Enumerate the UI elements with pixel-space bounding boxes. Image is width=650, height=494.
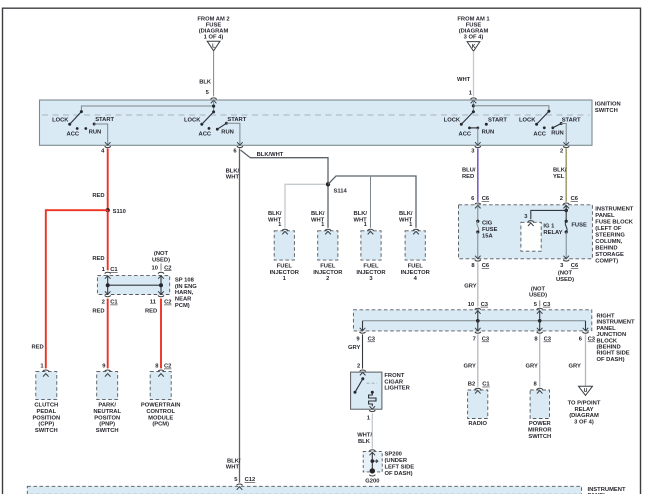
wire GRY junction pin 8 to power mirror switch [526,334,540,386]
ignition switch pole 2 [184,112,247,138]
svg-text:(IN ENG: (IN ENG [175,284,197,290]
svg-text:RIGHT SIDE: RIGHT SIDE [597,351,630,357]
svg-text:C3: C3 [544,337,552,343]
svg-text:BLK/: BLK/ [311,211,325,217]
svg-text:K: K [472,44,476,50]
svg-text:START: START [227,117,246,123]
svg-text:C3: C3 [482,337,490,343]
svg-text:OF DASH): OF DASH) [597,357,625,363]
junction block pin 5 C3 stub (not used) [529,286,551,313]
svg-text:GRY: GRY [464,364,476,370]
svg-text:STORAGE: STORAGE [595,252,624,258]
svg-text:RELAY: RELAY [574,407,593,413]
svg-text:L: L [212,43,215,49]
wire to fuel injectors 3 and 4 [328,176,416,228]
power mirror switch [528,390,552,440]
svg-text:RIGHT: RIGHT [597,314,615,320]
svg-text:C1: C1 [482,382,490,388]
svg-text:(NOT: (NOT [558,270,573,276]
svg-text:USED): USED) [152,257,170,263]
svg-text:2: 2 [102,300,105,306]
svg-text:C3: C3 [481,302,489,308]
svg-text:IG 1: IG 1 [543,224,555,230]
svg-text:(BEHIND: (BEHIND [597,345,621,351]
wire WHT from triangle K to ignition switch pin 1 [457,51,477,103]
svg-text:7: 7 [473,337,476,343]
svg-text:3 OF 4): 3 OF 4) [464,35,484,41]
svg-text:U: U [584,388,588,394]
svg-text:C2: C2 [164,364,171,370]
svg-text:USED): USED) [529,292,547,298]
svg-text:RADIO: RADIO [468,421,487,427]
svg-text:3 OF 4): 3 OF 4) [574,420,594,426]
svg-text:MIRROR: MIRROR [528,427,552,433]
svg-text:PEDAL: PEDAL [36,409,56,415]
fuel injector 1 [268,211,300,282]
svg-text:OF DASH): OF DASH) [385,471,413,477]
svg-text:BLK/: BLK/ [399,211,413,217]
svg-text:C3: C3 [588,337,596,343]
svg-text:START: START [488,117,507,123]
svg-text:B2: B2 [468,382,475,388]
svg-text:RED: RED [462,174,474,180]
SP108 pin 2 C1 connector [102,295,119,305]
cig fuse 15A [476,205,497,258]
svg-text:(UNDER: (UNDER [385,458,408,464]
ignition switch box [40,100,621,145]
svg-text:C3: C3 [543,302,551,308]
svg-text:C2: C2 [164,265,171,271]
connector triangle K (FROM AM 1 FUSE) [457,17,490,52]
svg-text:RED: RED [145,309,157,315]
wire RED branch S110 to CPP switch [32,210,108,368]
fuse block pin 2 C6 connector [560,196,579,208]
radio pin B2 C1 connector [468,382,491,394]
svg-text:IGNITION: IGNITION [595,102,621,108]
junction block pin 9 C3 connector [356,328,375,343]
svg-text:RUN: RUN [221,130,234,136]
junction block internal bus [363,311,586,331]
svg-text:C6: C6 [482,196,490,202]
svg-text:(PNP): (PNP) [99,422,115,428]
svg-text:LOCK: LOCK [519,117,536,123]
svg-text:FUSE: FUSE [482,227,498,233]
svg-text:LOCK: LOCK [444,117,461,123]
wire BLK/YEL pin 2 to fuse block [553,148,567,201]
svg-text:LOCK: LOCK [184,117,201,123]
splice S114 [326,182,348,194]
svg-text:(DIAGRAM: (DIAGRAM [459,28,489,34]
SP108 pin 1 C1 connector [102,267,119,279]
wire to fuel injector 2 [327,187,329,228]
svg-text:SWITCH: SWITCH [528,434,551,440]
svg-text:PARK/: PARK/ [98,403,116,409]
svg-text:RELAY: RELAY [543,230,562,236]
svg-text:TO P/POINT: TO P/POINT [568,400,601,406]
connector triangle to P/point relay [568,386,601,425]
svg-text:ACC: ACC [459,132,472,138]
svg-text:1 OF 4): 1 OF 4) [204,35,224,41]
svg-text:C6: C6 [571,263,579,269]
svg-text:10: 10 [468,302,474,308]
svg-text:INJECTOR: INJECTOR [401,270,431,276]
svg-text:(DIAGRAM: (DIAGRAM [199,28,229,34]
fuel injector 3 [354,211,387,282]
svg-text:ACC: ACC [67,132,80,138]
power mirror switch pin 8 connector [533,382,542,394]
wire GRY junction pin 6 to P/point relay [569,334,586,386]
svg-text:2: 2 [560,196,563,202]
junction block pin 7 C3 connector [473,328,490,343]
svg-text:(DIAGRAM: (DIAGRAM [569,413,599,419]
instrument panel box (bottom, cut off) [27,486,626,494]
svg-text:POSITON: POSITON [94,415,120,421]
wire switch3 RUN to pin 3 [477,128,479,145]
svg-text:C1: C1 [110,267,118,273]
connector triangle L (FROM AM 2 FUSE) [197,17,229,51]
svg-text:POSITION: POSITION [32,415,60,421]
instrument panel fuse block [459,205,634,265]
svg-text:ACC: ACC [199,132,212,138]
svg-text:COLUMN,: COLUMN, [595,239,622,245]
IG 1 relay [521,222,563,251]
SP108 pin 10 C2 stub (not used) [152,251,172,279]
svg-text:INSTRUMENT: INSTRUMENT [595,207,633,213]
svg-text:C1: C1 [110,300,118,306]
svg-text:CLUTCH: CLUTCH [34,403,58,409]
cigar lighter pin 1 connector [367,410,376,421]
svg-text:INSTRUMENT: INSTRUMENT [588,487,626,493]
svg-text:JUNCTION: JUNCTION [597,332,627,338]
front cigar lighter [351,370,411,409]
switch 1 feed wire [81,106,213,112]
radio [468,390,488,427]
svg-text:SWITCH: SWITCH [595,108,618,114]
svg-text:INJECTOR: INJECTOR [270,270,300,276]
svg-text:LEFT SIDE: LEFT SIDE [385,465,415,471]
wire BLK/WHT pin 6 down to C12 [226,148,241,482]
svg-text:WHT: WHT [226,464,240,470]
wire RED SP108 pin2 to PNP switch [92,299,107,369]
wire RED S110 to SP108 pin 1 [92,210,107,270]
svg-text:BEHIND: BEHIND [595,246,617,252]
svg-text:15A: 15A [482,233,493,239]
fuse block pin 3 C6 connector (not used) [556,256,579,283]
svg-text:BLOCK: BLOCK [597,338,618,344]
SP108 pin 11 C2 connector [150,295,172,305]
svg-text:11: 11 [150,300,157,306]
svg-text:2: 2 [560,149,563,155]
svg-text:SWITCH: SWITCH [96,428,119,434]
svg-text:FUEL: FUEL [363,263,379,269]
svg-text:RED: RED [92,193,104,199]
svg-text:SP200: SP200 [385,452,402,458]
svg-text:BLK/: BLK/ [553,168,567,174]
svg-text:(PCM): (PCM) [152,422,169,428]
svg-text:GRY: GRY [569,364,581,370]
svg-text:S114: S114 [334,188,348,194]
svg-text:POWERTRAIN: POWERTRAIN [141,403,181,409]
fuel injector 2 [311,211,343,282]
pin 6 connector [233,142,243,154]
fuse (right) [565,210,587,258]
svg-text:FUSE: FUSE [571,222,587,228]
ignition switch pole 4 [519,110,581,138]
svg-text:COMPT): COMPT) [595,259,618,265]
svg-text:FRONT: FRONT [384,373,404,379]
junction block pin 6 C3 connector [579,328,596,343]
svg-text:C3: C3 [368,337,376,343]
ground G200 [365,468,379,484]
svg-text:C6: C6 [482,263,490,269]
pin 4 connector [101,142,111,154]
fuse block pin 6 C6 connector [471,196,490,208]
svg-text:(CPP): (CPP) [38,422,54,428]
junction block pin 8 C3 connector [534,328,551,343]
park/neutral position (PNP) switch [93,372,121,435]
splice S110 [106,208,126,215]
wire GRY junction pin 7 to radio [464,334,478,386]
svg-text:RED: RED [92,256,104,262]
svg-text:BLU/: BLU/ [462,168,476,174]
svg-text:10: 10 [152,265,158,271]
SP108 internal bus [105,276,164,295]
svg-text:FUEL: FUEL [320,263,336,269]
svg-text:GRY: GRY [348,345,360,351]
svg-text:PANEL: PANEL [597,326,617,332]
fuel injector 4 [399,211,431,282]
svg-text:START: START [562,117,581,123]
clutch pedal position (CPP) switch [32,372,60,435]
wire to fuel injector 1 [285,184,326,228]
svg-text:(NOT: (NOT [154,251,169,257]
switch 2 pivot from pin 5 [212,100,215,113]
svg-text:INJECTOR: INJECTOR [356,270,386,276]
svg-text:RUN: RUN [482,130,495,136]
IG 1 relay feed wire [524,205,568,226]
svg-text:PANEL: PANEL [595,213,615,219]
svg-text:ACC: ACC [533,132,546,138]
svg-text:C12: C12 [245,477,256,483]
svg-text:BLK: BLK [358,439,371,445]
svg-text:CONTROL: CONTROL [146,409,175,415]
svg-text:FUEL: FUEL [408,263,424,269]
svg-text:YEL: YEL [553,174,565,180]
pin 2 connector [560,142,569,154]
ignition switch pole 1 [52,110,114,137]
powertrain control module (PCM) [141,372,181,428]
svg-text:SWITCH: SWITCH [35,428,58,434]
wire RED from pin 4 to S110 [92,148,107,210]
PNP switch pin 9 connector [102,364,110,377]
pin 5 C12 connector at instrument panel [234,477,255,490]
svg-text:START: START [95,117,114,123]
svg-text:GRY: GRY [464,284,476,290]
wire drop to fuel injector 3 [370,176,372,228]
svg-text:NEAR: NEAR [175,297,192,303]
svg-text:SP 108: SP 108 [175,277,195,283]
switch 3 pivot from pin 1 [472,100,475,113]
wire BLK/WHT pin 6 branch to S114 [241,150,329,184]
svg-text:GRY: GRY [526,364,538,370]
svg-text:CIGAR: CIGAR [384,379,403,385]
fuse block pin 8 C6 connector [471,256,490,269]
svg-text:FUEL: FUEL [277,263,293,269]
svg-text:FUSE BLOCK: FUSE BLOCK [595,220,633,226]
switch 4 feed wire [473,106,549,111]
svg-text:PCM): PCM) [175,303,190,309]
ignition switch pole 3 [444,112,508,138]
CPP switch pin 1 connector [40,364,48,377]
splice SP200 [363,450,414,477]
cigar lighter contact arm [354,377,378,394]
PCM pin 8 C2 connector [155,364,171,377]
svg-text:BLK/: BLK/ [354,211,368,217]
junction block pin 10 C3 connector [468,302,489,314]
wire RED SP108 pin11 to PCM [145,299,161,369]
wire WHT/BLK cigar lighter to SP200 [357,413,372,448]
svg-text:RUN: RUN [551,130,564,136]
svg-text:WHT: WHT [226,174,240,180]
svg-text:BLK/: BLK/ [268,211,282,217]
svg-text:CIG: CIG [482,220,493,226]
wire switch4 START to pin 2 [561,124,566,146]
cigar lighter heating element [369,391,376,409]
svg-text:C6: C6 [571,196,579,202]
svg-text:HARN,: HARN, [175,290,194,296]
svg-text:C2: C2 [164,300,171,306]
wire switch2 START to pin 6 [226,123,240,145]
svg-text:POWER: POWER [529,421,552,427]
wire switch1 START to pin 4 [94,124,108,145]
svg-text:INJECTOR: INJECTOR [313,270,343,276]
wire BLU/RED pin 3 to fuse block [462,148,478,201]
svg-text:(LEFT OF: (LEFT OF [595,226,622,232]
svg-text:MODULE: MODULE [148,415,173,421]
svg-text:USED): USED) [556,277,574,283]
svg-text:RED: RED [92,309,104,315]
svg-text:RUN: RUN [89,130,102,136]
splice box SP 108 [97,276,197,309]
svg-text:LIGHTER: LIGHTER [384,386,410,392]
wire GRY fuse block to junction block pin 10 [464,262,478,306]
svg-text:STEERING: STEERING [595,233,625,239]
right instrument panel junction block [353,310,635,363]
svg-text:WHT/: WHT/ [357,432,372,438]
wire GRY junction pin 9 to cigar lighter [348,334,363,369]
svg-text:2: 2 [326,276,329,282]
svg-text:LOCK: LOCK [52,117,69,123]
svg-text:WHT: WHT [457,77,471,83]
svg-text:G200: G200 [365,478,379,484]
svg-text:BLK: BLK [199,79,212,85]
svg-text:BLK/WHT: BLK/WHT [257,152,284,158]
pin 3 connector [471,142,481,154]
svg-text:2: 2 [357,363,360,369]
svg-text:NEUTRAL: NEUTRAL [93,409,121,415]
wire BLK from triangle L to ignition switch pin 5 [199,51,216,104]
svg-text:INSTRUMENT: INSTRUMENT [597,320,635,326]
svg-text:RED: RED [32,344,44,350]
svg-text:S110: S110 [113,209,126,215]
